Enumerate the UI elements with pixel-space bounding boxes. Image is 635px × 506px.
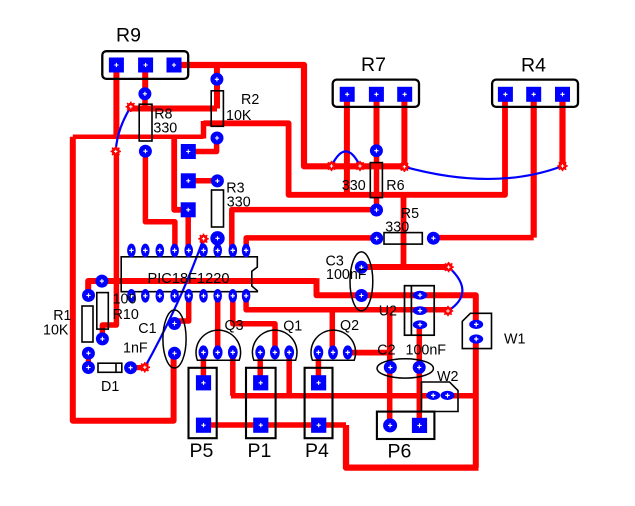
svg-text:C1: C1: [138, 321, 156, 337]
pad R6 top: [370, 144, 383, 157]
svg-text:R7: R7: [361, 54, 386, 76]
pad C2 right: [413, 361, 426, 374]
svg-text:P1: P1: [248, 440, 272, 462]
wire R8 bottom to IC pin4: [145, 151, 175, 249]
pad U1 pin bottom 9: [242, 289, 251, 303]
wire IC pin9b to U2 mid net: [246, 296, 448, 310]
pad C1 top: [168, 317, 181, 330]
pad R10 top: [95, 275, 108, 288]
wire Q2 mid riser: [330, 310, 336, 353]
pad Q1-2: [270, 345, 280, 359]
wire R9 pad2 to R8 top pad: [142, 65, 148, 94]
wire C3 top net: [361, 264, 448, 270]
wire bottom thick net: [231, 393, 433, 399]
pad A program header: [181, 144, 196, 159]
pad Q2-1: [314, 345, 324, 359]
pad R3 bottom: [210, 231, 224, 245]
capacitor C2 outline: [377, 359, 433, 378]
pad U1 pin top 2: [141, 244, 150, 258]
wire IC pad5 net horizontal: [204, 94, 506, 195]
jumper W1 outline: [462, 313, 491, 348]
pad U1 pin bottom 4: [170, 289, 179, 303]
wire Q2 left to P4 top: [316, 353, 322, 383]
connector P1 outline: [246, 368, 276, 438]
wire R8 top pad stub: [142, 94, 148, 109]
pad W2-1: [426, 391, 440, 400]
pad R9-3: [167, 58, 182, 73]
pad R2 top: [210, 73, 223, 86]
pad U1 pin bottom 5: [184, 289, 193, 303]
pad P4-1: [311, 375, 326, 390]
wire R7 pad2 to R6 top: [374, 94, 380, 151]
wire thin horizontal under R8: [73, 134, 204, 139]
pad R2 bottom: [211, 132, 224, 145]
ratsnest R8 area: [116, 107, 131, 152]
wire R4 pad2 down: [531, 94, 537, 237]
resistor R10 body: [97, 293, 109, 330]
via marker right of U2: [443, 306, 453, 316]
wire IC pin7b to Q3 mid: [215, 296, 221, 352]
resistor R3 body: [212, 190, 224, 227]
pad R1 bottom: [82, 347, 95, 360]
pad R3 top: [211, 174, 224, 187]
pad U2-1: [413, 291, 427, 300]
wire R10 top stub: [99, 281, 105, 286]
wire R7 pad3 down: [401, 94, 407, 166]
wire R2 top pad to top net: [214, 65, 220, 79]
via marker right of C3: [443, 262, 453, 272]
pad R9-2: [138, 58, 153, 73]
wire R2 bottom jog to R4 pad1 net: [201, 121, 207, 139]
pad U1 pin top 7: [213, 244, 222, 258]
wire pad F to IC pin5: [185, 210, 191, 250]
pad R4-3: [555, 87, 570, 102]
pad C3 bottom: [355, 289, 368, 302]
wire R6 bottom to IC pin8: [232, 210, 377, 250]
connector P5 outline: [189, 368, 217, 438]
wire left loop R9 pad1 to C1 bottom: [73, 137, 174, 421]
pad R9-1: [109, 58, 124, 73]
pad R7-2: [369, 87, 384, 102]
wire D1 right stub: [131, 365, 145, 370]
pad W1-2: [469, 334, 483, 343]
resistor R1 body: [82, 306, 93, 342]
wire R4 pad2 to R5 right: [433, 235, 533, 241]
ratsnest C3 to U2: [448, 267, 462, 311]
svg-text:R4: R4: [521, 54, 546, 76]
pad U1 pin bottom 3: [156, 289, 165, 303]
wire Q2 right to branch: [348, 350, 390, 356]
wire U2 bottom to C2 right to P6 right: [417, 325, 423, 426]
ratsnest IC pin6 to D1: [145, 239, 204, 367]
connector P4 outline: [305, 368, 333, 438]
pad F program header: [181, 202, 196, 217]
svg-text:100nF: 100nF: [406, 343, 447, 359]
via marker below R8 top: [111, 146, 121, 156]
wire R7 pad1 down: [344, 94, 350, 195]
pad P5-2: [196, 418, 211, 433]
wire R3 bottom to IC pin7: [215, 238, 220, 249]
wire W2 right to ground: [448, 393, 476, 399]
pad R1 top: [82, 289, 95, 302]
pad R6 bottom: [370, 204, 383, 217]
pad U2-3: [413, 320, 427, 329]
via marker right of D1: [140, 362, 150, 372]
pad U1 pin top 5: [184, 244, 193, 258]
pad U1 pin top 4: [170, 244, 179, 258]
svg-text:U2: U2: [379, 304, 397, 320]
resistor R9 outline: [102, 51, 188, 79]
wire P connectors bottom net: [204, 422, 347, 428]
pad W1-1: [469, 320, 483, 329]
svg-text:Q2: Q2: [340, 318, 359, 334]
wire R9 pad1 down: [113, 65, 119, 137]
pad U1 pin bottom 7: [213, 289, 222, 303]
pad U1 pin top 3: [156, 244, 165, 258]
pad U1 pin bottom 6: [199, 289, 208, 303]
resistor R4 outline: [492, 80, 578, 107]
svg-text:1nF: 1nF: [123, 340, 148, 356]
pad R7-1: [340, 87, 355, 102]
pad U2-2: [413, 306, 427, 315]
svg-text:330: 330: [153, 121, 177, 137]
pad C program header: [181, 173, 196, 188]
transistor Q2 outline: [311, 330, 356, 360]
wire R6 body vertical: [374, 151, 380, 210]
via marker on R7 net right: [355, 161, 365, 171]
resistor R6 body: [370, 163, 382, 198]
wire IC pin5b to C1 top: [175, 296, 189, 324]
wire U2 mid branch to P6 left: [387, 310, 393, 426]
wire ground right side down: [473, 339, 479, 468]
via marker on R7 net left: [326, 161, 336, 171]
resistor R5 body: [384, 233, 422, 245]
connector P6 outline: [377, 412, 435, 439]
pad R10 bottom: [96, 332, 109, 345]
wire pad F riser: [174, 137, 186, 210]
svg-text:330: 330: [385, 220, 409, 236]
svg-text:C2: C2: [377, 343, 395, 359]
pad U1 pin top 1: [127, 244, 136, 258]
svg-text:10K: 10K: [226, 108, 252, 124]
pad P1-2: [253, 418, 268, 433]
regulator U2 outline: [405, 286, 435, 336]
wire Q1 left to P1 top: [257, 352, 263, 382]
pad P1-1: [253, 375, 268, 390]
pad U1 pin top 9: [242, 244, 251, 258]
svg-text:P4: P4: [305, 440, 329, 462]
capacitor C1 outline: [163, 310, 186, 368]
svg-text:330: 330: [227, 194, 251, 210]
pad C3 top: [355, 261, 368, 274]
pad U1 pin bottom 8: [229, 289, 238, 303]
wire R9 pad1 net to R10 bottom: [102, 151, 116, 339]
pad R5 left: [370, 232, 383, 245]
capacitor C3 outline: [350, 252, 373, 311]
wire pad A to R2 bottom pad: [188, 138, 216, 152]
svg-text:W2: W2: [437, 369, 458, 385]
pad W2-2: [441, 391, 455, 400]
pad C2 left: [384, 361, 397, 374]
pad P5-1: [196, 375, 211, 390]
pad U1 pin bottom 2: [141, 289, 150, 303]
svg-text:W1: W1: [504, 332, 525, 348]
pad R4-2: [526, 87, 541, 102]
pad U1 pin top 8: [229, 244, 238, 258]
pad P4-2: [311, 418, 326, 433]
wire R9 pad3 to R7 area net: [174, 65, 404, 166]
pad Q2-2: [328, 345, 338, 359]
svg-text:Q3: Q3: [225, 318, 244, 334]
pad P6-1: [383, 418, 397, 432]
svg-text:R6: R6: [386, 178, 404, 194]
transistor Q1 outline: [252, 330, 297, 360]
wire R5 net riser: [401, 195, 407, 267]
pad P6-2: [412, 418, 427, 433]
pad R4-1: [498, 87, 513, 102]
resistor R8 body: [139, 104, 152, 141]
svg-text:Q1: Q1: [283, 318, 302, 334]
svg-text:100: 100: [113, 292, 137, 308]
pad Q1-1: [255, 345, 265, 359]
ratsnest R7 arc: [332, 151, 361, 166]
svg-text:330: 330: [342, 178, 366, 194]
svg-text:R2: R2: [241, 92, 259, 108]
pad R8 bottom: [139, 145, 152, 158]
wire pad C to R3 top pad: [188, 178, 217, 184]
wire Q3 right down: [230, 352, 236, 396]
pad D1 left: [82, 361, 95, 374]
wire R2 body vertical: [214, 79, 220, 108]
wire R5 left to IC pin9: [246, 238, 377, 249]
transistor Q3 outline: [196, 330, 241, 360]
wire Q3 left to P5 top: [201, 352, 207, 383]
pad C1 bottom: [168, 347, 181, 360]
pad Q2-3: [343, 345, 353, 359]
pad Q3-1: [199, 345, 209, 359]
via marker above IC pin6: [198, 234, 208, 244]
pad R7-3: [397, 87, 412, 102]
svg-text:P5: P5: [190, 440, 214, 462]
op-amp U1 PIC18F1220 outline: [121, 257, 257, 292]
svg-text:10K: 10K: [43, 323, 69, 339]
svg-text:100nF: 100nF: [326, 267, 367, 283]
svg-text:R10: R10: [113, 307, 139, 323]
svg-text:D1: D1: [101, 379, 119, 395]
pad U1 pin bottom 1: [127, 289, 136, 303]
wire ground jog right: [317, 278, 476, 324]
resistor R7 outline: [333, 80, 419, 107]
diode D1 body: [98, 363, 122, 372]
pad Q1-3: [284, 345, 294, 359]
ratsnest R7 to R4: [404, 166, 562, 179]
wire ground mid trace: [88, 281, 316, 296]
wire R1 bottom to D1 left: [86, 353, 91, 367]
wire IC pin8b to Q1 mid: [233, 296, 275, 352]
svg-text:R9: R9: [116, 25, 141, 47]
via marker left of R8: [126, 102, 136, 112]
wire Q1 right down: [286, 352, 292, 396]
pad Q3-3: [228, 345, 238, 359]
svg-text:PIC18F1220: PIC18F1220: [148, 271, 230, 287]
via marker below R4 pad3: [557, 161, 567, 171]
svg-text:P6: P6: [388, 440, 412, 462]
wire R8-R2 net: [130, 106, 218, 112]
jumper W2 outline: [422, 382, 459, 412]
pad R9-2 via: [138, 87, 151, 100]
resistor R2 body: [211, 91, 223, 127]
pad R5 right: [427, 232, 440, 245]
pad U1 pin top 6: [199, 244, 208, 258]
wire ground bottom: [346, 425, 479, 468]
via marker at R7 pad3 corner: [399, 162, 409, 172]
wire R4 pad3 down: [559, 94, 565, 166]
pad D1 right: [124, 361, 137, 374]
pad Q3-2: [213, 345, 223, 359]
